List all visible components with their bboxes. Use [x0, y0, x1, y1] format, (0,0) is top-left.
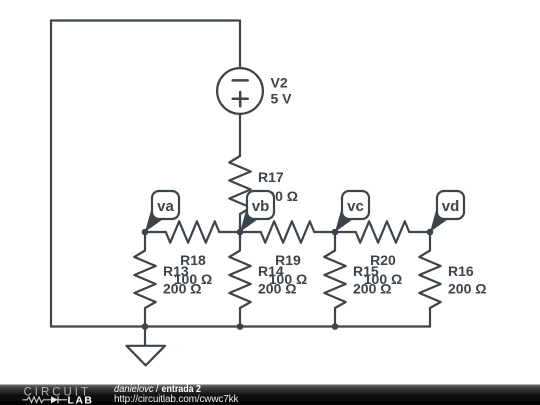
junction dot bottom rail R14 — [237, 323, 244, 330]
resistor R18 — [145, 221, 240, 242]
svg-text:200 Ω: 200 Ω — [353, 281, 391, 297]
svg-text:R13: R13 — [163, 263, 189, 279]
resistor R17 (with wire from V2) — [229, 114, 250, 232]
resistor R19 — [240, 221, 335, 242]
junction dot node vd — [427, 229, 434, 236]
resistor R14 — [229, 232, 250, 327]
svg-text:R14: R14 — [258, 263, 284, 279]
ground symbol — [127, 327, 166, 366]
svg-text:200 Ω: 200 Ω — [448, 281, 486, 297]
resistor R20 — [335, 221, 430, 242]
svg-text:vc: vc — [347, 198, 364, 215]
svg-text:va: va — [157, 198, 174, 215]
svg-text:R15: R15 — [353, 263, 379, 279]
junction dot node va — [142, 229, 149, 236]
resistor R16 — [419, 232, 440, 327]
wire bottom ground rail — [51, 325, 430, 327]
svg-text:vd: vd — [442, 198, 460, 215]
svg-text:http://circuitlab.com/cwwc7kk: http://circuitlab.com/cwwc7kk — [114, 394, 240, 405]
svg-text:200 Ω: 200 Ω — [258, 281, 296, 297]
voltage source V2 — [217, 68, 263, 114]
junction dot node vb — [237, 229, 244, 236]
CircuitLab logo — [23, 387, 93, 405]
svg-text:LAB: LAB — [68, 395, 93, 405]
node va label flag — [145, 191, 179, 232]
node vb label flag — [240, 191, 274, 232]
resistor R13 — [134, 232, 155, 327]
junction dot bottom rail / ground — [142, 323, 149, 330]
svg-text:200 Ω: 200 Ω — [163, 281, 201, 297]
svg-text:R17: R17 — [258, 169, 284, 185]
junction dot bottom rail R15 — [332, 323, 339, 330]
svg-text:vb: vb — [252, 198, 270, 215]
svg-text:V2: V2 — [271, 75, 288, 91]
node vd label flag — [430, 191, 464, 232]
node vc label flag — [335, 191, 369, 232]
footer bar — [0, 384, 540, 405]
wire left/top loop from bottom rail up and across to V2 — [51, 21, 240, 327]
resistor R15 — [324, 232, 345, 327]
svg-text:5 V: 5 V — [271, 91, 293, 107]
svg-text:R16: R16 — [448, 263, 474, 279]
junction dot node vc — [332, 229, 339, 236]
